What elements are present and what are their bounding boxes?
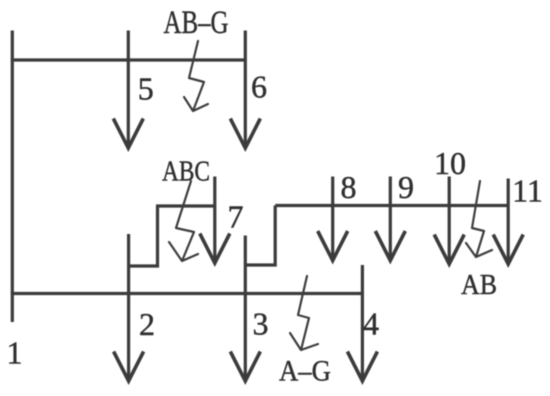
svg-text:2: 2 xyxy=(139,306,155,342)
load arrow feeder 9 xyxy=(375,231,405,261)
wire: middle bus to feeder 7 xyxy=(156,204,215,207)
svg-text:3: 3 xyxy=(253,306,269,342)
fault bolt ABC on feeder 7 xyxy=(169,181,198,261)
load arrow feeder 2 xyxy=(114,352,144,382)
load arrow feeder 6 xyxy=(230,119,260,149)
svg-text:A–G: A–G xyxy=(279,355,331,388)
fault bolt AB on feeder between 10 and 11 xyxy=(466,181,492,257)
load arrow feeder 7 xyxy=(200,234,230,264)
svg-text:9: 9 xyxy=(398,169,414,205)
wire: feeder 4 shaft xyxy=(361,265,364,380)
svg-text:4: 4 xyxy=(363,306,379,342)
load arrow feeder 10 xyxy=(434,235,464,265)
svg-text:10: 10 xyxy=(434,145,466,181)
svg-text:AB: AB xyxy=(461,269,497,301)
svg-text:6: 6 xyxy=(251,69,267,105)
wire: right bus from jog to feeder 11 xyxy=(275,204,508,207)
load arrow feeder 5 xyxy=(113,119,143,149)
wire: jog from feeder 2 up to middle bus xyxy=(129,206,158,266)
bus 1 main vertical (node 1) xyxy=(11,31,14,323)
wire: feeder 9 shaft xyxy=(389,177,392,259)
svg-text:5: 5 xyxy=(138,71,154,107)
fault bolt AB-G on feeder between 5 and 6 xyxy=(184,41,208,111)
svg-text:7: 7 xyxy=(228,199,244,235)
fault bolt A-G on bottom bus between 3 and 4 xyxy=(290,276,318,350)
svg-text:11: 11 xyxy=(512,173,543,209)
wire: bottom bus from node 1 to feeder 4 xyxy=(11,292,363,295)
wire: top bus from node 1 to feeder 6 xyxy=(11,58,247,61)
svg-text:1: 1 xyxy=(7,335,23,371)
wire: feeder 3 shaft xyxy=(244,236,247,380)
wire: feeder 2 shaft xyxy=(127,234,130,380)
wire: feeder 8 shaft xyxy=(331,177,334,259)
svg-text:8: 8 xyxy=(341,169,357,205)
wire: feeder 6 shaft xyxy=(244,31,247,147)
wire: jog from feeder 3 up to right bus xyxy=(245,206,275,266)
svg-text:AB–G: AB–G xyxy=(164,5,229,41)
load arrow feeder 11 xyxy=(493,235,523,265)
wire: feeder 7 shaft xyxy=(213,177,216,262)
svg-text:ABC: ABC xyxy=(162,157,210,188)
load arrow feeder 4 xyxy=(347,352,377,382)
wire: feeder 11 shaft xyxy=(507,179,510,263)
load arrow feeder 3 xyxy=(230,352,260,382)
wire: feeder 10 shaft xyxy=(448,177,451,263)
load arrow feeder 8 xyxy=(318,231,348,261)
wire: feeder 5 shaft xyxy=(127,31,130,147)
